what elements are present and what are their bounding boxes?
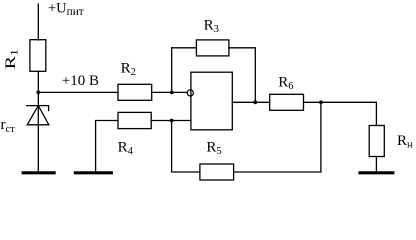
ground under zener bbox=[22, 171, 56, 174]
wire: R3 right branch vertical down to output bbox=[254, 48, 256, 103]
ground under Rn bbox=[358, 171, 394, 174]
wire: R3 left lead bbox=[172, 47, 197, 49]
resistor R4 body bbox=[118, 112, 151, 128]
wire: R3 left branch vertical bbox=[171, 48, 173, 93]
wire: Rn bottom to ground bbox=[375, 157, 377, 172]
svg-text:+10 В: +10 В bbox=[62, 73, 99, 89]
resistor R5 body bbox=[200, 164, 234, 180]
node: non-inverting input junction bbox=[170, 119, 174, 123]
wire: +Upit supply down to R1 top bbox=[37, 4, 39, 40]
wire: R3 right lead bbox=[229, 47, 255, 49]
node: output junction after R6 bbox=[319, 100, 323, 104]
node: output junction at R3 bbox=[253, 100, 257, 104]
zener diode r_st cathode bar with hook bbox=[27, 106, 49, 111]
wire: R4 left lead and ground drop bbox=[96, 121, 118, 172]
wire: R1 bottom to ground through zener column bbox=[37, 71, 39, 171]
wire: R6 to load branch bbox=[304, 102, 377, 125]
resistor R1 body bbox=[30, 40, 46, 72]
resistor Rn load body bbox=[369, 126, 384, 157]
resistor R3 body bbox=[196, 40, 229, 56]
wire: non-inverting node down and to R5 bbox=[172, 121, 200, 173]
wire: +10V node horizontal to R2 bbox=[38, 91, 118, 93]
ground under R4 bbox=[74, 171, 113, 174]
wire: R5 right to output feedback vertical bbox=[234, 102, 321, 172]
wire: comparator output to R6 bbox=[232, 101, 269, 103]
wire: R4 to comparator non-inverting input bbox=[151, 120, 191, 122]
node: +10V junction bbox=[36, 91, 40, 95]
zener diode r_st triangle bbox=[27, 106, 49, 125]
wire: R2 to comparator inverting input bbox=[152, 91, 187, 93]
node: inverting input junction bbox=[170, 91, 174, 95]
resistor R6 body bbox=[270, 94, 304, 110]
op-amp comparator box U1 bbox=[191, 72, 232, 130]
inverting input bubble bbox=[187, 90, 193, 96]
resistor R2 body bbox=[118, 84, 152, 100]
